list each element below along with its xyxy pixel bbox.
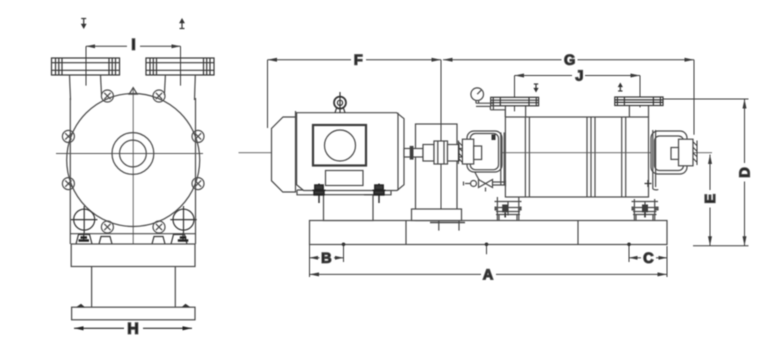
- bearing bracket: [416, 124, 458, 221]
- left bell housing: [462, 131, 502, 172]
- bolt pads: [76, 233, 188, 244]
- drain pipe curve: [475, 172, 482, 184]
- dimension A: [310, 273, 668, 275]
- baseplate seam left: [405, 221, 407, 245]
- label F: [355, 55, 362, 65]
- bolt lugs around casing: [62, 90, 204, 233]
- support bracket bolts (+ circles): [71, 206, 197, 233]
- main centerline: [239, 152, 713, 154]
- eyebolt: [339, 92, 341, 113]
- right cover fitting cross: [645, 180, 652, 187]
- motor end-bell seam: [397, 113, 399, 191]
- main circle: [67, 94, 200, 227]
- dimension B: [310, 245, 344, 277]
- label B: [322, 253, 331, 263]
- pump left flange: [491, 97, 539, 106]
- pump right port neck: [628, 105, 630, 117]
- anchor bolt dot left: [342, 243, 346, 247]
- pump left foot: [495, 197, 522, 221]
- dimension F: [268, 60, 442, 209]
- anchor bolt dot right: [627, 243, 631, 247]
- dimension E: [709, 155, 711, 246]
- label I: [132, 39, 134, 50]
- bracket shelf line: [70, 233, 195, 235]
- left flange (front): [52, 58, 120, 75]
- motor pedestal: [324, 195, 374, 221]
- label C: [644, 253, 653, 263]
- left port neck: [70, 75, 71, 100]
- right flange (front): [146, 58, 214, 75]
- right port neck: [194, 75, 197, 100]
- nameplate: [326, 171, 364, 186]
- support plate: [71, 244, 195, 267]
- label D (rotated): [740, 168, 750, 177]
- dimension J: [515, 76, 641, 112]
- pump left port neck: [504, 106, 506, 117]
- flow arrow down (pump left port): [535, 84, 537, 89]
- baseplate weld ticks: [438, 221, 440, 231]
- centerlines: [56, 88, 203, 244]
- pedestal: [91, 267, 93, 308]
- top tip: [129, 88, 137, 95]
- right bell housing: [651, 131, 693, 174]
- coupling: [404, 141, 467, 164]
- hub circles: [112, 133, 154, 175]
- label G: [565, 55, 575, 65]
- dimension H: [74, 327, 192, 329]
- baseplate: [310, 221, 668, 245]
- dimension C: [629, 246, 667, 277]
- motor body: [297, 113, 404, 191]
- F/G extension through bracket: [440, 124, 442, 209]
- dimension D: [663, 99, 749, 246]
- motor feet: [297, 189, 391, 191]
- motor fan cover: [272, 111, 296, 192]
- flow arrow up (right port): [180, 23, 185, 29]
- gauge: [471, 88, 484, 101]
- label H: [128, 323, 137, 334]
- terminal box: [313, 125, 366, 166]
- casing sides: [69, 98, 71, 244]
- base plate: [72, 307, 195, 320]
- dimension I: [86, 46, 181, 85]
- flow arrow down (left port): [81, 19, 86, 25]
- baseplate seam right: [577, 221, 579, 245]
- pump body: [505, 117, 648, 197]
- pump right foot: [632, 199, 659, 221]
- flow arrow up (pump right port): [619, 87, 621, 92]
- pump right flange: [615, 97, 663, 106]
- label A: [483, 269, 493, 279]
- drain valve: [471, 181, 477, 187]
- pump body centerline seam: [505, 152, 648, 154]
- label E (rotated): [705, 194, 715, 202]
- anchor bolt dot middle: [485, 243, 489, 247]
- bell bolt mark: [492, 135, 496, 141]
- motor foot bolts: [313, 184, 386, 204]
- label J: [576, 71, 583, 81]
- dimension G: [443, 60, 694, 135]
